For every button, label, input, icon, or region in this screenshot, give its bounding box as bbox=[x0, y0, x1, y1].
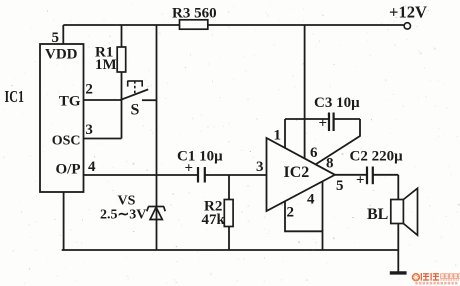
svg-text:C2 220μ: C2 220μ bbox=[350, 149, 404, 165]
svg-text:S: S bbox=[131, 102, 140, 119]
svg-text:8: 8 bbox=[326, 156, 334, 172]
svg-text:C3 10μ: C3 10μ bbox=[314, 95, 360, 111]
svg-text:5: 5 bbox=[336, 178, 344, 194]
svg-text:2: 2 bbox=[85, 82, 93, 98]
svg-text:+12V: +12V bbox=[389, 3, 427, 22]
svg-text:+: + bbox=[185, 161, 194, 177]
svg-text:IC2: IC2 bbox=[284, 164, 310, 181]
svg-text:6: 6 bbox=[310, 145, 318, 161]
svg-text:47k: 47k bbox=[202, 212, 226, 228]
svg-text:O/P: O/P bbox=[56, 162, 81, 178]
svg-text:2.5∼3V: 2.5∼3V bbox=[100, 208, 146, 223]
svg-text:TG: TG bbox=[59, 94, 81, 110]
svg-text:VDD: VDD bbox=[45, 47, 78, 63]
svg-text:1M: 1M bbox=[95, 57, 117, 73]
svg-text:OSC: OSC bbox=[52, 134, 81, 149]
svg-text:5: 5 bbox=[52, 30, 60, 46]
svg-text:R3 560: R3 560 bbox=[172, 6, 217, 22]
svg-text:+: + bbox=[356, 173, 365, 189]
svg-text:4: 4 bbox=[88, 159, 96, 175]
svg-text:3: 3 bbox=[256, 159, 264, 175]
svg-text:1: 1 bbox=[274, 128, 282, 144]
svg-text:BL: BL bbox=[367, 206, 388, 223]
svg-text:2: 2 bbox=[287, 205, 295, 221]
svg-text:3: 3 bbox=[85, 122, 93, 138]
svg-text:VS: VS bbox=[118, 194, 136, 209]
svg-text:IC1: IC1 bbox=[5, 87, 25, 106]
